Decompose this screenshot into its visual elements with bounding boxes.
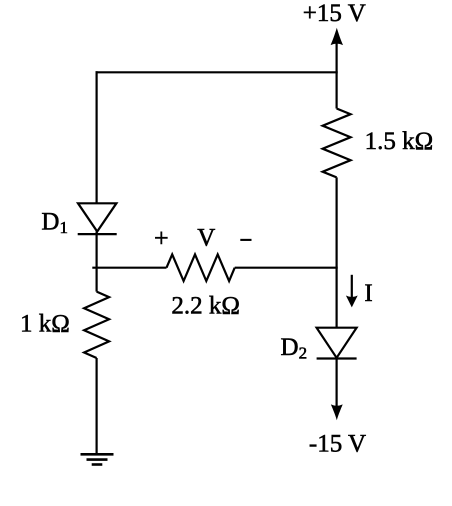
wire: resistor to right rail bbox=[235, 267, 338, 269]
resistor 1 kOhm bbox=[84, 292, 109, 358]
wire: 1k resistor to ground bbox=[95, 358, 97, 454]
svg-text:I: I bbox=[364, 280, 372, 307]
svg-text:V: V bbox=[197, 224, 215, 251]
node A: left junction bbox=[92, 267, 166, 269]
label - (V polarity) bbox=[240, 239, 251, 241]
wire: left rail from top corner to D1 bbox=[95, 71, 97, 203]
wire: right rail from 1.5k to D2 bbox=[336, 177, 338, 327]
svg-text:1 kΩ: 1 kΩ bbox=[20, 310, 70, 337]
diode D1 bbox=[78, 203, 117, 234]
ground bbox=[81, 454, 114, 464]
svg-text:+15 V: +15 V bbox=[303, 0, 366, 27]
wire: top horizontal rail bbox=[96, 71, 338, 73]
current arrow I bbox=[346, 275, 358, 308]
resistor 2.2 kOhm bbox=[167, 254, 235, 281]
svg-text:1.5 kΩ: 1.5 kΩ bbox=[365, 128, 434, 155]
-15 V supply arrow bbox=[331, 358, 343, 420]
svg-text:2.2 kΩ: 2.2 kΩ bbox=[171, 293, 240, 320]
+15 V supply arrow bbox=[331, 28, 343, 109]
svg-text:-15 V: -15 V bbox=[309, 430, 366, 457]
svg-text:+: + bbox=[154, 223, 169, 252]
resistor 1.5 kOhm bbox=[323, 109, 351, 178]
diode D2 bbox=[317, 328, 357, 359]
wire: D1 cathode to node A bbox=[95, 232, 97, 292]
